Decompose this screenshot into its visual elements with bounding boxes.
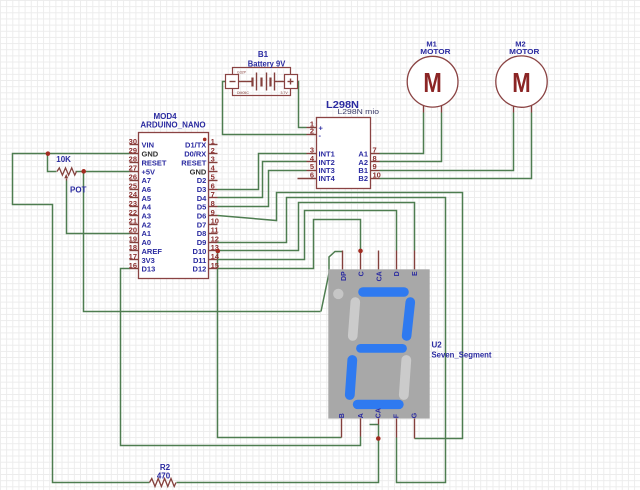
svg-text:18: 18 bbox=[129, 243, 137, 252]
svg-text:D7: D7 bbox=[197, 220, 207, 229]
svg-text:8: 8 bbox=[211, 199, 215, 208]
svg-text:VIN: VIN bbox=[142, 141, 155, 150]
svg-text:D5: D5 bbox=[197, 203, 207, 212]
svg-text:ARDUINO_NANO: ARDUINO_NANO bbox=[140, 121, 205, 130]
svg-text:AREF: AREF bbox=[142, 247, 163, 256]
svg-text:30: 30 bbox=[129, 137, 137, 146]
svg-text:26: 26 bbox=[129, 172, 137, 181]
svg-text:D: D bbox=[394, 271, 401, 276]
svg-text:D4: D4 bbox=[197, 194, 207, 203]
svg-text:6: 6 bbox=[211, 181, 215, 190]
svg-text:10: 10 bbox=[211, 217, 219, 226]
svg-text:27: 27 bbox=[129, 164, 137, 173]
svg-text:24: 24 bbox=[129, 190, 138, 199]
svg-text:A1: A1 bbox=[142, 229, 152, 238]
svg-text:D2: D2 bbox=[197, 176, 207, 185]
svg-text:MOTOR: MOTOR bbox=[509, 47, 540, 56]
svg-text:B: B bbox=[339, 413, 346, 418]
svg-text:21: 21 bbox=[129, 217, 137, 226]
svg-text:6: 6 bbox=[310, 171, 314, 180]
svg-text:L298N mio: L298N mio bbox=[338, 109, 380, 116]
svg-text:M: M bbox=[423, 67, 441, 98]
svg-text:D11: D11 bbox=[193, 256, 206, 265]
svg-text:23: 23 bbox=[129, 199, 137, 208]
svg-text:17: 17 bbox=[129, 252, 137, 261]
svg-text:E: E bbox=[412, 271, 419, 276]
svg-text:D6: D6 bbox=[197, 212, 207, 221]
svg-text:470: 470 bbox=[157, 472, 171, 481]
svg-text:3: 3 bbox=[211, 155, 215, 164]
svg-text:10: 10 bbox=[373, 171, 381, 180]
svg-text:A7: A7 bbox=[142, 176, 152, 185]
svg-text:15: 15 bbox=[211, 261, 219, 270]
svg-text:14: 14 bbox=[211, 252, 220, 261]
svg-text:D9: D9 bbox=[197, 238, 207, 247]
svg-text:D13: D13 bbox=[142, 265, 156, 274]
svg-text:3V3: 3V3 bbox=[142, 256, 155, 265]
svg-text:B2: B2 bbox=[358, 174, 368, 183]
svg-text:2: 2 bbox=[310, 127, 314, 136]
svg-text:1: 1 bbox=[211, 137, 215, 146]
svg-text:D0/RX: D0/RX bbox=[184, 150, 206, 159]
svg-text:3.7V: 3.7V bbox=[281, 91, 289, 95]
svg-text:16: 16 bbox=[129, 261, 137, 270]
svg-text:7: 7 bbox=[211, 190, 215, 199]
svg-text:DM05C: DM05C bbox=[237, 91, 249, 95]
svg-text:A3: A3 bbox=[142, 212, 152, 221]
svg-text:M: M bbox=[512, 67, 530, 98]
svg-text:MOTOR: MOTOR bbox=[420, 47, 451, 56]
svg-text:19: 19 bbox=[129, 234, 137, 243]
svg-text:22: 22 bbox=[129, 208, 137, 217]
svg-text:A0: A0 bbox=[142, 238, 152, 247]
svg-text:D3: D3 bbox=[197, 185, 207, 194]
svg-text:20: 20 bbox=[129, 226, 137, 235]
svg-text:RESET: RESET bbox=[142, 158, 167, 167]
svg-text:F: F bbox=[393, 413, 400, 418]
svg-text:25: 25 bbox=[129, 181, 137, 190]
svg-text:U2: U2 bbox=[432, 341, 443, 350]
svg-text:A: A bbox=[358, 413, 365, 418]
svg-text:B1: B1 bbox=[258, 50, 269, 59]
svg-text:2: 2 bbox=[211, 146, 215, 155]
svg-text:CA: CA bbox=[376, 271, 383, 281]
svg-text:10K: 10K bbox=[56, 155, 71, 164]
svg-text:Seven_Segment: Seven_Segment bbox=[432, 351, 492, 360]
svg-text:G: G bbox=[411, 412, 418, 418]
svg-text:G32P: G32P bbox=[237, 71, 247, 75]
svg-text:11: 11 bbox=[211, 226, 219, 235]
svg-text:A4: A4 bbox=[142, 203, 152, 212]
svg-text:GND: GND bbox=[142, 150, 159, 159]
svg-text:A2: A2 bbox=[142, 220, 152, 229]
svg-text:D12: D12 bbox=[193, 265, 207, 274]
svg-text:CA: CA bbox=[375, 408, 382, 418]
svg-text:POT: POT bbox=[70, 185, 87, 194]
svg-text:12: 12 bbox=[211, 234, 219, 243]
svg-text:29: 29 bbox=[129, 146, 137, 155]
svg-text:GND: GND bbox=[190, 167, 207, 176]
svg-text:A6: A6 bbox=[142, 185, 152, 194]
svg-text:D10: D10 bbox=[193, 247, 207, 256]
svg-text:RESET: RESET bbox=[181, 158, 206, 167]
svg-text:D8: D8 bbox=[197, 229, 207, 238]
svg-text:D1/TX: D1/TX bbox=[185, 141, 206, 150]
svg-text:+5V: +5V bbox=[142, 167, 156, 176]
svg-text:INT4: INT4 bbox=[319, 174, 336, 183]
svg-text:A5: A5 bbox=[142, 194, 152, 203]
svg-text:C: C bbox=[358, 271, 365, 276]
svg-text:28: 28 bbox=[129, 155, 137, 164]
svg-text:5: 5 bbox=[211, 172, 215, 181]
svg-text:R2: R2 bbox=[160, 463, 171, 472]
svg-text:DP: DP bbox=[341, 271, 348, 281]
svg-text:Battery 9V: Battery 9V bbox=[248, 59, 286, 68]
svg-text:9: 9 bbox=[211, 208, 215, 217]
